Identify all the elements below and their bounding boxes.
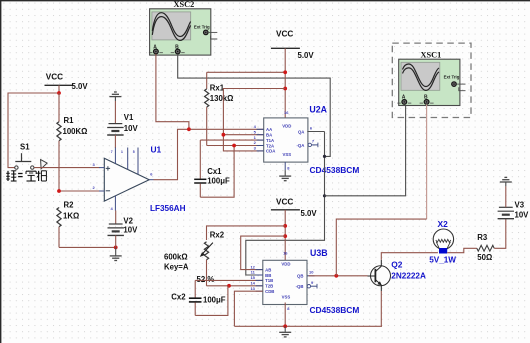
svg-text:5.0V: 5.0V bbox=[301, 209, 318, 218]
svg-text:BA: BA bbox=[266, 133, 272, 138]
svg-text:VSS: VSS bbox=[282, 152, 291, 157]
svg-text:7: 7 bbox=[111, 150, 113, 154]
svg-text:X2: X2 bbox=[438, 219, 449, 229]
svg-text:14: 14 bbox=[250, 281, 255, 286]
wire Rx2 bottom to T2B pin bbox=[207, 285, 263, 287]
svg-text:VCC: VCC bbox=[276, 30, 293, 39]
svg-text:10V: 10V bbox=[124, 124, 139, 133]
svg-text:10V: 10V bbox=[123, 226, 138, 235]
wire Cx1 bottom loop to T2A bbox=[200, 146, 234, 198]
wire XSC2 channel B to QA net bbox=[178, 54, 331, 156]
svg-text:T1B: T1B bbox=[265, 278, 273, 283]
svg-text:5V_1W: 5V_1W bbox=[429, 255, 456, 264]
svg-text:16: 16 bbox=[284, 110, 289, 115]
op-amp U1 LF356AH bbox=[93, 145, 186, 214]
svg-text:V1: V1 bbox=[124, 113, 134, 122]
svg-text:CDA: CDA bbox=[266, 149, 275, 154]
resistor R1 bbox=[57, 93, 88, 191]
junction VCC/Rx1 bbox=[283, 70, 287, 74]
svg-text:Ext Trig: Ext Trig bbox=[444, 74, 460, 79]
junction QB/XSC1-B riser bbox=[334, 274, 338, 278]
junction BA feed bbox=[222, 133, 226, 137]
svg-text:5.0V: 5.0V bbox=[298, 51, 315, 60]
ground above V1 bbox=[109, 92, 121, 124]
svg-text:15: 15 bbox=[250, 275, 255, 280]
svg-text:VCC: VCC bbox=[46, 73, 63, 82]
svg-text:CD4538BCM: CD4538BCM bbox=[310, 165, 360, 175]
junction XSC2-A on AA line bbox=[187, 127, 191, 131]
svg-text:600kΩ: 600kΩ bbox=[164, 253, 188, 262]
wire op-amp output to AA pin bbox=[154, 129, 264, 179]
potentiometer Rx2 600k Key=A 52% bbox=[164, 230, 225, 285]
svg-text:1KΩ: 1KΩ bbox=[63, 212, 79, 221]
wire R2 to V2 ground node bbox=[59, 246, 116, 248]
ground above V3 bbox=[500, 177, 512, 207]
junction QA/XSC1-A bbox=[323, 194, 326, 197]
junction Cx1/T2A bbox=[232, 144, 236, 148]
svg-text:VCC: VCC bbox=[276, 198, 293, 207]
resistor Rx1 bbox=[205, 72, 234, 145]
label key = space (Chinese) bbox=[6, 171, 46, 181]
svg-text:Cx1: Cx1 bbox=[207, 167, 222, 176]
svg-text:100μF: 100μF bbox=[207, 177, 230, 186]
svg-text:Cx2: Cx2 bbox=[171, 292, 186, 301]
svg-text:-QA: -QA bbox=[297, 143, 305, 148]
svg-text:2N2222A: 2N2222A bbox=[391, 271, 426, 280]
wire VCC to AB pin bbox=[241, 236, 286, 270]
svg-text:VDD: VDD bbox=[282, 123, 291, 128]
monostable U2A CD4538BCM bbox=[254, 105, 360, 175]
resistor R3 50ohm bbox=[477, 233, 494, 262]
svg-text:1: 1 bbox=[121, 150, 123, 154]
svg-text:LF356AH: LF356AH bbox=[150, 204, 186, 213]
svg-text:Key=A: Key=A bbox=[164, 262, 189, 271]
wire XSC2 channel A to AA net bbox=[156, 54, 189, 129]
svg-text:10V: 10V bbox=[515, 210, 530, 219]
svg-text:AA: AA bbox=[266, 127, 272, 132]
capacitor Cx2 100uF bbox=[171, 280, 225, 315]
svg-text:U2A: U2A bbox=[309, 105, 327, 115]
resistor R2 bbox=[57, 201, 79, 248]
oscilloscope XSC1 (selected, dashed) bbox=[392, 43, 471, 117]
ground below U3B bbox=[279, 326, 291, 337]
svg-text:Q2: Q2 bbox=[391, 260, 403, 270]
wire CDB to ground rail bbox=[234, 291, 262, 326]
svg-text:R1: R1 bbox=[64, 116, 75, 125]
wire Q2 collector to lamp bbox=[381, 253, 438, 260]
svg-text:52 %: 52 % bbox=[197, 275, 215, 284]
wire XSC1 channel B to QB net bbox=[426, 104, 428, 219]
wire VCC to BA and CDA pins bbox=[223, 89, 285, 151]
wire Cx1 top to T1A pin bbox=[200, 139, 263, 141]
svg-text:U1: U1 bbox=[151, 145, 162, 155]
svg-text:CD4538BCM: CD4538BCM bbox=[310, 305, 360, 315]
svg-text:5.0V: 5.0V bbox=[72, 82, 89, 91]
svg-text:U3B: U3B bbox=[310, 248, 328, 258]
wire R1/R2 node to op-amp - input bbox=[59, 190, 100, 192]
wire Cx2 top to T1B pin bbox=[195, 279, 263, 281]
svg-text:T2B: T2B bbox=[265, 284, 273, 289]
power VCC rail (lower middle) 5.0V bbox=[271, 198, 317, 263]
junction VCC/BA-CDA feed bbox=[283, 87, 287, 91]
svg-text:130kΩ: 130kΩ bbox=[210, 94, 234, 103]
lamp X2 5V_1W bbox=[429, 219, 456, 264]
svg-text:R3: R3 bbox=[477, 233, 488, 242]
wire VCC to S1 left loop bbox=[8, 93, 59, 168]
svg-text:16: 16 bbox=[283, 250, 288, 255]
wire Cx2 bottom loop to T2B bbox=[195, 286, 228, 316]
transistor Q2 2N2222A bbox=[368, 260, 426, 291]
svg-text:10: 10 bbox=[309, 270, 314, 275]
svg-text:Rx1: Rx1 bbox=[210, 84, 225, 93]
svg-text:VSS: VSS bbox=[282, 294, 291, 299]
junction VCC/R1/S1 bbox=[57, 91, 61, 95]
junction Cx2/T2B bbox=[227, 284, 231, 288]
svg-text:BB: BB bbox=[265, 273, 271, 278]
svg-text:-QB: -QB bbox=[296, 284, 304, 289]
wire Q2 emitter to ground rail bbox=[380, 291, 382, 326]
junction V2/ground bbox=[114, 246, 118, 250]
svg-text:V2: V2 bbox=[123, 217, 133, 226]
svg-text:QB: QB bbox=[297, 274, 303, 279]
junction R1/R2/- input bbox=[57, 189, 61, 193]
svg-text:5: 5 bbox=[133, 150, 135, 154]
monostable U3B CD4538BCM bbox=[250, 248, 359, 315]
svg-text:CDB: CDB bbox=[265, 289, 274, 294]
svg-text:13: 13 bbox=[250, 286, 255, 291]
ground below V2 bbox=[110, 247, 122, 260]
wire Rx1 bottom to T2A pin bbox=[207, 145, 264, 147]
junction VSS/ground bbox=[283, 324, 287, 328]
svg-text:AB: AB bbox=[265, 267, 271, 272]
wire lamp to R3 bbox=[447, 248, 477, 252]
svg-text:12: 12 bbox=[250, 264, 255, 269]
svg-text:S1: S1 bbox=[20, 142, 30, 151]
power VCC rail (top middle) 5.0V bbox=[271, 30, 314, 118]
switch S1 (push button) bbox=[15, 142, 47, 169]
wire QB to Q2 base bbox=[309, 275, 368, 277]
wire S1 to op-amp + input bbox=[34, 167, 99, 169]
power VCC rail (left) 5.0V bbox=[45, 73, 89, 94]
wire VCC to Rx2 top bbox=[207, 226, 286, 240]
battery V1 10V bbox=[107, 113, 138, 148]
junction VCC/AB feed bbox=[283, 234, 287, 238]
wire Rx1 top to VCC rail bbox=[207, 71, 286, 73]
wire ground rail (bottom) bbox=[234, 325, 382, 327]
wire R3 to V3 bbox=[494, 219, 506, 249]
svg-text:Rx2: Rx2 bbox=[210, 230, 225, 239]
wire U3B VSS to ground bbox=[285, 303, 290, 327]
svg-text:Ext Trig: Ext Trig bbox=[194, 24, 210, 29]
svg-text:50Ω: 50Ω bbox=[477, 253, 492, 262]
ground below U2A VSS bbox=[279, 162, 291, 181]
capacitor Cx1 100uF bbox=[194, 140, 230, 197]
battery V2 10V bbox=[108, 211, 139, 248]
svg-text:XSC1: XSC1 bbox=[421, 50, 442, 59]
svg-text:T1A: T1A bbox=[266, 138, 274, 143]
wire QA to U3B BB and XSC links bbox=[246, 132, 325, 276]
junction VCC/Rx2 bbox=[283, 224, 287, 228]
battery V3 10V bbox=[498, 201, 530, 220]
oscilloscope XSC2 bbox=[149, 0, 217, 55]
svg-text:T2A: T2A bbox=[266, 143, 274, 148]
svg-text:XSC2: XSC2 bbox=[174, 0, 195, 9]
svg-text:QA: QA bbox=[298, 129, 304, 134]
svg-text:VDD: VDD bbox=[281, 261, 290, 266]
svg-text:100μF: 100μF bbox=[203, 295, 226, 304]
svg-text:100KΩ: 100KΩ bbox=[63, 127, 88, 136]
svg-text:V3: V3 bbox=[515, 201, 525, 210]
junction QA/XSC2-B bbox=[323, 155, 326, 158]
wire QB to XSC1 channel B bbox=[336, 219, 426, 276]
wire XSC1 channel A bbox=[325, 105, 406, 196]
svg-text:R2: R2 bbox=[64, 201, 75, 210]
